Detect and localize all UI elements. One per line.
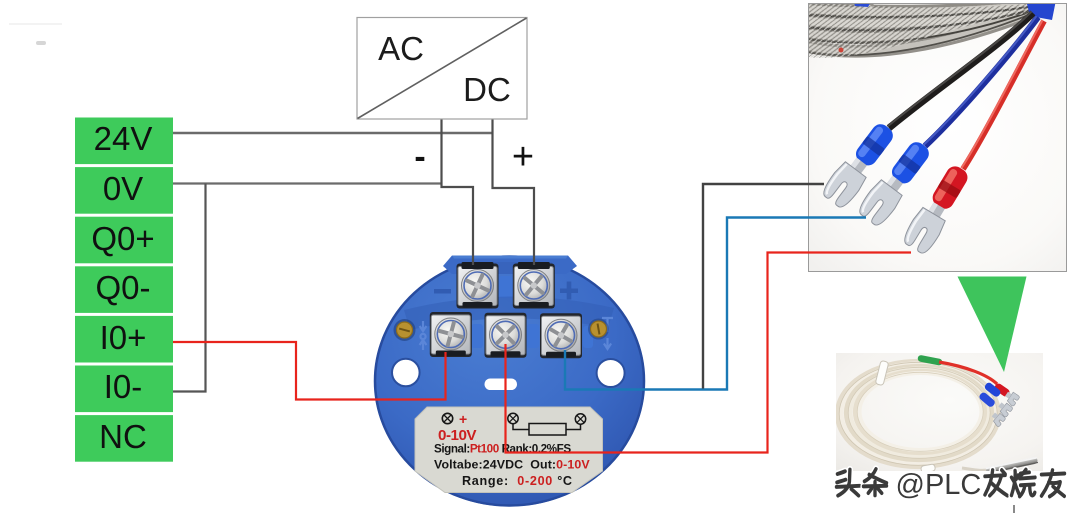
wire 0V to DC minus bbox=[173, 182, 442, 184]
cable tie bottom bbox=[921, 464, 936, 473]
braid weave texture overlay bbox=[806, 2, 1034, 58]
svg-text:0V: 0V bbox=[103, 170, 143, 207]
red lead wire bbox=[963, 21, 1044, 169]
molded minus mark bbox=[434, 289, 451, 294]
terminal screw D bbox=[485, 313, 527, 358]
silver fork blue lead 2 bbox=[989, 411, 1006, 428]
braided cable bundle bbox=[806, 0, 1035, 55]
svg-text:I0+: I0+ bbox=[100, 319, 147, 356]
flat top deck of module bbox=[443, 256, 577, 275]
svg-text:Q0+: Q0+ bbox=[91, 220, 154, 257]
svg-text:Voltabe:24VDC Out:0-10V: Voltabe:24VDC Out:0-10V bbox=[434, 458, 590, 472]
temperature transmitter module (blue round body) bbox=[374, 256, 645, 507]
photo of PT100 probe with coiled cable (bottom right) bbox=[836, 353, 1043, 475]
black lead wire bbox=[889, 13, 1033, 128]
red lead to fork bbox=[939, 362, 997, 384]
terminal Q0+ bbox=[75, 217, 173, 264]
blue divider between top screws bbox=[499, 276, 513, 298]
terminal screw A (minus) bbox=[457, 262, 499, 309]
wire blue transmitter screw E to blue fork terminal bbox=[565, 218, 866, 390]
brass screw right bbox=[588, 319, 609, 340]
blue lead wire bbox=[925, 17, 1038, 146]
wire red transmitter screw D to red fork terminal bbox=[506, 253, 912, 453]
terminal I0+ bbox=[75, 316, 173, 363]
terminal screw E bbox=[540, 313, 582, 358]
oval slot bbox=[485, 379, 518, 391]
svg-text:Q0-: Q0- bbox=[95, 269, 150, 306]
wire DC plus drop to transmitter screw B bbox=[493, 119, 535, 265]
blue ferrule 2 bottom photo bbox=[978, 391, 996, 408]
glyph &#21457; bbox=[985, 470, 1007, 495]
blue dividers bottom row bbox=[471, 324, 483, 348]
mounting hole right bbox=[597, 359, 625, 387]
small tick below watermark bbox=[1013, 505, 1015, 513]
watermark 头条 @PLC发烧友 bbox=[836, 469, 1064, 501]
faint smudge artifacts top-left bbox=[9, 23, 62, 25]
green sleeve bbox=[921, 359, 939, 363]
svg-text:+: + bbox=[459, 411, 467, 427]
svg-text:-: - bbox=[414, 138, 425, 176]
molded plus mark bbox=[560, 282, 578, 300]
red speck in braid bbox=[839, 48, 844, 53]
green arrow pointing to probe photo bbox=[958, 277, 1027, 373]
glyph &#22836; bbox=[836, 470, 859, 496]
probe lead wire bbox=[962, 468, 986, 470]
svg-text:NC: NC bbox=[99, 418, 147, 455]
svg-text:0-10V: 0-10V bbox=[438, 427, 477, 444]
glyph &#28903; bbox=[1011, 470, 1035, 497]
terminal Q0- bbox=[75, 266, 173, 313]
svg-text:I0-: I0- bbox=[104, 368, 143, 405]
wire red I0+ to transmitter screw C bbox=[173, 342, 446, 400]
stainless probe bbox=[984, 456, 1038, 474]
terminal 24V bbox=[75, 118, 173, 165]
PLC terminal block bbox=[75, 118, 173, 462]
silver fork blue lead 1 bbox=[996, 400, 1013, 417]
silver fork red lead bbox=[1003, 390, 1020, 407]
wire DC minus drop to transmitter screw A bbox=[442, 119, 474, 265]
wire 0V branch to I0- bbox=[173, 184, 206, 392]
svg-text:DC: DC bbox=[463, 71, 511, 108]
svg-text:Range: 0-200 °C: Range: 0-200 °C bbox=[462, 474, 573, 488]
label screw-plus icon bbox=[442, 411, 467, 427]
svg-text:24V: 24V bbox=[94, 120, 153, 157]
diagonal divider of AC/DC box bbox=[358, 18, 527, 119]
cable tie top bbox=[875, 360, 889, 385]
mounting hole left bbox=[392, 359, 420, 387]
terminal I0- bbox=[75, 366, 173, 413]
label resistor icon bbox=[508, 413, 586, 435]
wire black fork terminal to junction on blue wire bbox=[703, 184, 824, 389]
fork terminal black wire (blue ferrule) bbox=[820, 118, 900, 210]
blue ferrule 1 bottom photo bbox=[983, 381, 1001, 398]
spec label plate bbox=[415, 407, 603, 493]
blue heat-shrink band at braid end bbox=[1026, 0, 1056, 20]
glyph &#26465; bbox=[863, 469, 886, 495]
fork terminal red wire (red ferrule) bbox=[901, 161, 975, 256]
photo of RTD cable with fork terminals (top right) bbox=[806, 0, 1067, 272]
svg-text:+: + bbox=[512, 136, 534, 178]
molded arrow marks right bbox=[602, 318, 613, 349]
svg-text:@PLC: @PLC bbox=[896, 469, 982, 501]
red ferrule bottom photo bbox=[993, 382, 1011, 398]
terminal 0V bbox=[75, 167, 173, 214]
brass screw left bbox=[394, 319, 416, 341]
coiled cable bbox=[837, 361, 999, 467]
svg-text:AC: AC bbox=[378, 30, 424, 67]
AC/DC power supply U1 bbox=[357, 18, 527, 120]
terminal screw B (plus) bbox=[513, 262, 555, 309]
glyph &#21451; bbox=[1041, 470, 1064, 496]
terminal screw C bbox=[430, 312, 472, 357]
wire 24V to DC plus bbox=[173, 132, 493, 134]
terminal NC bbox=[75, 415, 173, 462]
blue band on upper branch bbox=[853, 0, 872, 7]
photo1 frame border bbox=[809, 4, 1067, 272]
molded ledge under top screws bbox=[404, 296, 614, 330]
fork terminal blue wire (blue ferrule) bbox=[856, 136, 936, 228]
molded arrow marks left bbox=[420, 321, 427, 350]
